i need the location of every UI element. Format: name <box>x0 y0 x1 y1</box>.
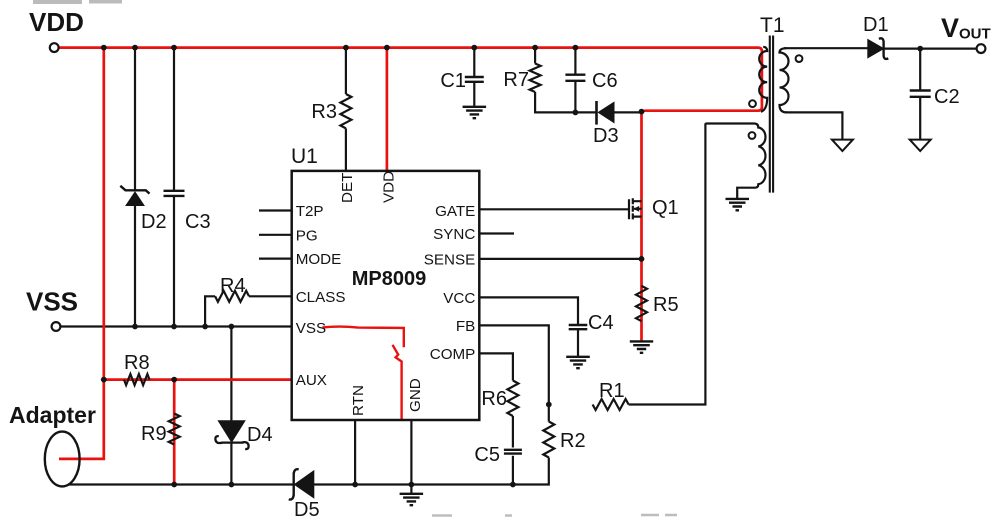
svg-text:R3: R3 <box>311 101 337 123</box>
node C6 top <box>573 45 579 51</box>
capacitor C4 <box>569 325 588 329</box>
capacitor C5 <box>504 450 522 454</box>
svg-text:FB: FB <box>456 318 475 335</box>
terminal VSS <box>52 322 61 331</box>
wire FB branch <box>479 325 549 404</box>
node SENSE Q1 <box>639 256 645 262</box>
svg-text:VSS: VSS <box>26 287 78 317</box>
svg-text:RTN: RTN <box>350 385 367 416</box>
svg-text:MP8009: MP8009 <box>352 268 427 290</box>
node C2 top <box>917 46 923 52</box>
node adapter AUX <box>101 377 107 383</box>
node GND bottom <box>409 482 415 488</box>
svg-text:T1: T1 <box>760 14 785 37</box>
svg-text:D4: D4 <box>247 424 273 446</box>
svg-text:R9: R9 <box>141 423 167 445</box>
wire C2 branch <box>919 49 921 140</box>
capacitor C3 <box>164 191 185 196</box>
svg-text:C1: C1 <box>440 70 466 92</box>
svg-text:VDD: VDD <box>29 7 84 37</box>
wire R6 to C5 <box>512 416 514 485</box>
node R4 left <box>202 324 208 330</box>
node C6 bottom <box>573 110 579 116</box>
artifact bottom text remnants <box>432 514 677 517</box>
wire red annotation VSS to GND inside U1 <box>323 327 404 348</box>
wire D4 branch <box>230 327 232 485</box>
node VDD rail jog <box>101 45 107 51</box>
wire R2 top / FB node <box>548 405 550 422</box>
wire R7 top <box>534 48 536 64</box>
capacitor C6 <box>565 75 585 81</box>
ground under GND pin <box>400 494 424 505</box>
diode D4 <box>218 421 245 442</box>
wire C3 branch <box>173 48 175 327</box>
wire VCC to C4 <box>479 297 578 356</box>
wire red VDD pin of U1 <box>386 48 389 171</box>
svg-text:VDD: VDD <box>381 171 398 203</box>
node R9 top <box>171 377 177 383</box>
ground under C4 <box>566 357 590 368</box>
node FB R1 R2 <box>546 402 552 408</box>
resistor R7 <box>530 64 541 93</box>
svg-text:T2P: T2P <box>296 203 324 220</box>
resistor R8 <box>124 374 150 385</box>
svg-text:MODE: MODE <box>296 251 342 268</box>
node VDD pin top <box>384 45 390 51</box>
diode D3 <box>598 102 614 122</box>
wire D1 cathode to VOUT terminal <box>884 47 977 49</box>
svg-text:R7: R7 <box>503 69 529 91</box>
diode D1 <box>868 40 884 58</box>
wire red R9 branch <box>173 380 176 484</box>
svg-text:D1: D1 <box>863 14 889 36</box>
terminal VOUT <box>977 44 986 53</box>
capacitor C1 <box>465 77 484 82</box>
node C3 top <box>171 45 177 51</box>
node C1 top <box>471 45 477 51</box>
wire red adapter to VDD rail <box>59 48 104 459</box>
resistor R6 <box>507 381 518 417</box>
svg-text:R5: R5 <box>653 294 679 316</box>
resistor R5 <box>636 286 647 321</box>
svg-text:AUX: AUX <box>296 372 327 389</box>
wire D2 branch <box>134 48 136 327</box>
svg-text:C2: C2 <box>934 86 960 108</box>
svg-text:PG: PG <box>296 227 318 244</box>
node D2 bottom <box>132 324 138 330</box>
svg-text:C3: C3 <box>185 211 211 233</box>
ground arrow secondary <box>832 140 853 151</box>
resistor R3 <box>340 94 351 128</box>
node C5 bottom <box>510 482 516 488</box>
svg-text:C4: C4 <box>588 312 614 334</box>
IC U1 MP8009 body <box>292 171 480 420</box>
svg-text:VSS: VSS <box>296 320 326 337</box>
terminal VDD <box>50 43 59 52</box>
transformer T1 primary winding <box>759 47 767 112</box>
wire D3 to Q1 drain node <box>614 111 642 113</box>
wire R1 to aux winding <box>629 123 706 404</box>
node R7 top <box>532 45 538 51</box>
wire RTN pin <box>354 420 356 485</box>
wire red annotation squiggle to GND pin <box>393 345 402 419</box>
wire R3 branch <box>345 48 347 171</box>
node D4 top <box>229 324 235 330</box>
wire C1 branch <box>473 48 475 107</box>
wire R4 branch <box>205 296 292 326</box>
ground under aux winding <box>726 199 750 210</box>
capacitor C2 <box>910 91 931 97</box>
svg-text:GATE: GATE <box>435 203 475 220</box>
wire SENSE <box>479 258 641 260</box>
node R9 bottom <box>171 482 177 488</box>
svg-text:D2: D2 <box>141 211 167 233</box>
svg-text:R2: R2 <box>560 430 586 452</box>
artifact top smudge <box>33 0 122 4</box>
svg-text:C5: C5 <box>474 444 500 466</box>
node D2 top <box>132 45 138 51</box>
svg-text:C6: C6 <box>592 70 618 92</box>
node C3 bottom <box>171 324 177 330</box>
resistor R2 <box>543 422 554 458</box>
transformer T1 secondary winding <box>780 48 789 112</box>
resistor R4 <box>215 291 249 302</box>
diode D5 <box>295 471 314 498</box>
svg-text:SENSE: SENSE <box>424 251 476 268</box>
wire COMP to R6 <box>479 353 513 380</box>
wire red VDD rail through transformer primary to Q1 node <box>59 48 762 342</box>
svg-text:R8: R8 <box>124 352 150 374</box>
svg-text:D3: D3 <box>593 125 619 147</box>
svg-text:CLASS: CLASS <box>296 289 346 306</box>
svg-text:DET: DET <box>339 173 356 203</box>
node R3 top <box>343 45 349 51</box>
transformer T1 aux winding <box>705 124 765 199</box>
wire MODE stub <box>259 258 292 260</box>
polarity dot secondary <box>796 55 803 62</box>
svg-text:R6: R6 <box>481 388 507 410</box>
wire secondary top to D1 <box>784 47 868 49</box>
wire bottom rail left of D5 <box>68 483 294 485</box>
ground under R5 <box>630 341 653 352</box>
adapter source symbol <box>45 432 80 487</box>
svg-text:D5: D5 <box>294 499 320 518</box>
resistor R9 <box>169 414 180 445</box>
wire bottom rail right of D5 <box>314 458 549 485</box>
svg-text:GND: GND <box>407 378 424 412</box>
wire T2P stub <box>259 209 292 211</box>
wire GND pin <box>410 420 412 494</box>
wire GATE <box>479 208 629 210</box>
wire secondary bottom to ground <box>785 112 842 139</box>
ground under C1 <box>463 107 487 118</box>
wire VSS rail <box>61 325 292 327</box>
svg-text:R1: R1 <box>599 380 625 402</box>
wire C6 branch <box>574 48 576 113</box>
wire C6 node to D3 <box>575 111 596 113</box>
wire R7 bottom to C6 node <box>535 92 575 112</box>
transformer T1 core <box>770 36 773 193</box>
svg-text:Q1: Q1 <box>652 197 679 219</box>
wire SYNC stub <box>479 232 514 234</box>
ground arrow C2 <box>910 140 931 151</box>
node RTN bottom <box>352 482 358 488</box>
svg-text:COMP: COMP <box>430 346 476 363</box>
wire red AUX line <box>104 378 292 381</box>
zener diode D2 <box>126 192 144 206</box>
polarity dot aux <box>749 132 756 139</box>
svg-text:Adapter: Adapter <box>9 402 96 428</box>
node D4 bottom <box>229 482 235 488</box>
svg-text:SYNC: SYNC <box>433 226 475 243</box>
wire PG stub <box>259 234 292 236</box>
polarity dot primary <box>749 100 756 107</box>
transistor Q1 <box>629 198 642 219</box>
svg-text:R4: R4 <box>220 275 246 297</box>
node D3 cathode primary <box>639 109 645 115</box>
svg-text:U1: U1 <box>291 145 318 168</box>
resistor R1 <box>593 399 629 410</box>
svg-text:VCC: VCC <box>443 290 475 307</box>
